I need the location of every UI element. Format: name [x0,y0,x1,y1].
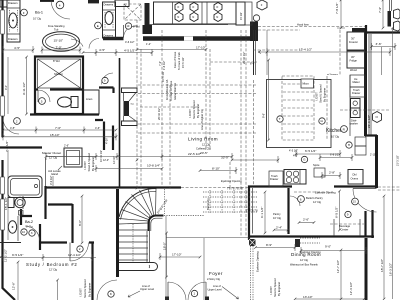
window left wall tub [1,177,5,194]
svg-text:Line of Higher Clg: Line of Higher Clg [200,109,204,130]
coffered horizontal 1 [138,84,257,86]
svg-text:O: O [216,5,218,9]
ba2 south wall [0,242,21,244]
corner cabinet top left [0,0,7,7]
burner hex O1 [175,3,183,12]
foyer dashed double line [251,246,254,300]
svg-text:Island: Island [51,172,58,176]
kitchen south wall east [334,185,377,187]
island tag T [277,116,283,122]
circle tag 9 hall [102,77,108,83]
svg-text:Master Closet: Master Closet [42,151,61,155]
svg-text:21'-6 1/2": 21'-6 1/2" [367,115,371,128]
svg-text:I JOIST: I JOIST [315,92,319,101]
circle tag 2 study [77,246,83,252]
shower inner tile line [38,59,81,88]
dishwasher box 2 [351,108,361,118]
svg-text:7'-8 1/2": 7'-8 1/2" [335,3,339,14]
svg-text:N: N [216,15,218,19]
svg-text:4'-5": 4'-5" [10,126,15,130]
svg-text:8'-0": 8'-0" [78,220,82,226]
vanity Ba-1 left drawer lines [7,8,20,34]
dim vert left margin 1 [7,57,9,114]
svg-text:2'-6": 2'-6" [64,145,69,148]
stair left wall [116,189,119,277]
window left wall W2 [1,96,5,116]
master closet left wall thin [45,158,47,186]
ba2 sink oval [8,221,16,233]
foyer door leaf right [205,282,207,300]
trash drawer box [269,171,283,187]
counter range box [284,170,306,185]
range cabinet left base [143,25,153,34]
svg-text:9' Wd: 9' Wd [133,25,140,29]
svg-text:3: 3 [31,231,33,235]
dim row 33-9 [232,156,278,163]
svg-text:6'-1 1/2": 6'-1 1/2" [260,207,264,218]
fireplace firebox [124,101,130,116]
dim line 15-10 mid [3,133,116,140]
sink dot [12,20,14,22]
counter burner circles [286,171,291,176]
closet wall horizontal [0,146,42,148]
ba2 tub drain [34,184,37,187]
svg-text:Dbl: Dbl [353,173,357,177]
svg-text:9'-11 1/2": 9'-11 1/2" [22,82,26,95]
dining west jamb [295,239,300,247]
wc partition wall [35,88,83,90]
burner hex O2 [190,3,198,12]
svg-text:7'8 7'8 7'8: 7'8 7'8 7'8 [246,209,258,213]
svg-text:10'-8 1/4": 10'-8 1/4" [147,164,160,168]
dim 2-6 butler [299,222,314,224]
hall door leaf 10 [123,25,125,38]
svg-text:17'-10": 17'-10" [172,253,182,257]
coffered ceiling vertical 4 [210,49,230,188]
circle tag E vanity2 [95,22,102,29]
svg-text:washer: washer [350,122,358,126]
cabinet boxes right mid [355,137,366,146]
island front dashed [253,49,300,51]
svg-text:33'-9": 33'-9" [221,156,229,160]
stair right dashed edge [164,189,204,216]
hood pillar left [145,3,150,25]
island tag 11 [319,118,325,124]
svg-text:Center: Center [341,228,349,232]
svg-text:10' Clg: 10' Clg [331,135,340,139]
svg-text:I JOIST: I JOIST [79,288,83,297]
circle tag 6b pantry [345,211,351,217]
closet island inner [67,151,80,165]
svg-text:I JOIST: I JOIST [188,109,192,118]
svg-text:E: E [97,24,99,28]
dim vertical 9-11 [26,57,28,114]
svg-text:8'-10": 8'-10" [212,167,220,171]
svg-text:Linen: Linen [86,97,93,101]
svg-text:4'-0": 4'-0" [4,85,8,90]
coffered ceiling vertical 6 [245,30,247,236]
svg-text:4'-5": 4'-5" [14,46,20,50]
svg-text:12'-3 1/2": 12'-3 1/2" [349,282,353,295]
vanity Ba-1 right [103,2,116,38]
svg-text:8' Wd: 8' Wd [53,59,60,63]
coffered horizontal 4 [138,132,257,134]
svg-text:21'-3 1/2": 21'-3 1/2" [396,155,400,166]
svg-text:20'-10 1/2": 20'-10 1/2" [242,52,246,64]
foyer door leaf left [167,282,169,300]
svg-text:N: N [192,15,194,19]
svg-text:O: O [177,5,179,9]
vanity Ba-1 left [7,0,20,42]
dim 17-10 stairs [160,253,200,260]
svg-text:Micro: Micro [303,82,310,86]
svg-text:12' Clg: 12' Clg [49,156,58,160]
kitchen dashed line right [340,109,390,111]
svg-text:By Engineer: By Engineer [91,157,95,171]
coffered ceiling vertical 5 [240,30,242,236]
cooktop dividers [173,2,208,24]
svg-text:20'-5": 20'-5" [200,151,208,155]
bath hall door arc [89,39,99,49]
svg-text:Ba-1: Ba-1 [35,11,43,15]
hood above dashed [258,27,365,31]
foyer column [249,239,256,246]
dim vertical 15-6 [372,28,396,299]
svg-text:12'-4 1/2": 12'-4 1/2" [68,253,81,257]
stair fan treads [119,189,156,225]
leader line island [58,166,62,170]
stair outer rail arc2 [121,191,157,219]
eyebrow opening dashed top [378,187,400,190]
pantry door arc [290,196,300,206]
tub inner ellipse [46,34,77,49]
svg-text:Hood Item: Hood Item [297,23,309,27]
svg-text:4'-5 1/2": 4'-5 1/2" [289,150,298,153]
svg-text:4'-6 1/2": 4'-6 1/2" [125,40,135,44]
svg-text:Pantry: Pantry [273,212,281,216]
svg-text:Free-Standing: Free-Standing [48,24,65,28]
svg-text:30": 30" [351,37,355,41]
circle tag 15 dining door [352,198,359,205]
beverage niche west wall [364,211,366,236]
dim 9-5 study [0,254,96,261]
attic access dashed box [124,4,141,20]
svg-text:10' Clg: 10' Clg [33,17,42,21]
burner hex N3 [214,12,222,21]
island dim line [268,60,270,140]
hall dashed pair [169,85,171,188]
butler east wall lower [371,210,373,238]
svg-text:9'-5 1/2": 9'-5 1/2" [12,253,23,257]
dining NE corner jog [364,235,374,237]
svg-text:Freezer: Freezer [349,40,358,44]
ba2 toilet bowl inner [17,200,23,206]
stairs second bullnose inner [148,265,151,268]
svg-text:7'-9": 7'-9" [378,7,382,13]
burner hex N2 [190,12,198,21]
ba2 sink dot [12,226,14,228]
dim 2-8 spice [322,172,340,179]
stair outer rail arc [119,188,157,217]
wc door arc [38,90,50,102]
svg-text:O: O [192,5,194,9]
counter range divider [299,170,301,185]
wall niche white [184,37,193,41]
svg-text:F: F [23,11,25,15]
svg-text:9'-6": 9'-6" [262,113,266,118]
fireplace top flange [122,88,138,93]
svg-text:Sized & Spaced: Sized & Spaced [87,152,91,171]
svg-text:10'-5 1/2": 10'-5 1/2" [161,71,165,82]
circle tag R kitchen [341,126,348,133]
svg-text:30": 30" [351,55,355,59]
ba2 vanity counter [17,216,19,241]
svg-text:3'-9 1/2": 3'-9 1/2" [49,175,53,185]
svg-text:18'-0": 18'-0" [163,242,167,250]
dbl ovens box [348,170,363,185]
door arc hall left [3,118,19,134]
island corner jog top [352,28,365,33]
dim vertical 12-6 study [18,262,58,300]
svg-text:Coffered Clg: Coffered Clg [196,147,211,151]
svg-text:12' Clg: 12' Clg [300,258,309,262]
dining NE door leaf [353,188,377,190]
svg-text:13'-10": 13'-10" [303,295,313,299]
svg-text:15 1/2": 15 1/2" [239,12,243,20]
svg-text:9: 9 [347,213,349,217]
svg-text:17'-10": 17'-10" [196,46,206,50]
sink oval Ba-1 left [9,13,17,28]
wic door arc [71,39,83,47]
kitchen dashed vertical [339,30,341,75]
kitchen east wall [364,33,367,136]
svg-text:1: 1 [193,292,195,296]
dim vertical 6-5 butler [339,191,341,230]
hall south wall [99,88,114,94]
kitchen east wall inner line [369,34,371,135]
stair up dotted line [132,224,134,262]
svg-text:12'-7 1/2": 12'-7 1/2" [336,260,340,273]
svg-text:7'8 7'8 7'8 7'8: 7'8 7'8 7'8 7'8 [227,187,243,191]
svg-text:Line of: Line of [213,284,221,288]
circle H spout [253,15,259,21]
window left wall W1 [1,10,5,34]
ba2 toilet bowl [15,197,25,207]
svg-text:15'-1 1/2": 15'-1 1/2" [4,197,8,210]
master closet top wall [46,186,182,188]
coffered ceiling vertical 3 [141,30,206,188]
foyer double door arc right [188,282,206,300]
dim 17-10 lr [137,49,206,51]
island micro box [301,79,314,88]
dim vertical 6-1 pantry [264,192,266,233]
svg-text:2'-4": 2'-4" [276,226,282,230]
tick marks row157 [46,153,117,160]
dim vert left margin 2 [7,150,9,240]
arrow upper level stairs [128,291,140,297]
circle tag 3 ba2 [29,230,35,236]
ba2 door arc [25,226,40,241]
eyebrow opening dashes kitchen [294,191,333,193]
svg-text:Maker: Maker [353,80,360,84]
svg-text:15'-4 1/2": 15'-4 1/2" [299,48,312,52]
dim line 7-0 tub [42,47,80,54]
dim line 15-4.5 top right [267,48,390,56]
svg-text:Barrel Clg: Barrel Clg [206,198,210,210]
burner hex N1 [175,12,183,21]
burner hex O3 [214,3,222,12]
spice cabinet [314,168,325,177]
shower X diagonal 1 [38,59,81,88]
closet east wall [71,204,73,243]
dining right wall [365,238,368,300]
kitchen island countertop [267,80,332,148]
porch hexagon 1 [394,9,400,19]
svg-text:Wood: Wood [350,68,357,72]
cooktop counter front line [147,24,228,26]
stairs straight treads [119,230,148,260]
dim vertical 18-7 right [383,196,385,299]
circle tag 8 study door [108,291,114,297]
svg-text:2-Story Clg: 2-Story Clg [207,277,221,281]
svg-text:Drawers: Drawers [104,3,114,7]
ba2 tub inner [11,179,40,196]
dim 2-4 pantry [274,229,288,231]
coffered horizontal 3 [138,123,257,125]
svg-text:15'-5 1/2": 15'-5 1/2" [181,57,185,68]
fridge box [347,51,365,68]
dishwasher box 1 [351,99,361,109]
free standing tub ellipse [43,32,80,52]
svg-text:11'-2 1/2": 11'-2 1/2" [4,249,8,262]
wc door leaf [37,90,39,102]
hall door arc 10 [124,26,138,38]
hall north wall left [103,37,124,41]
svg-text:Fridge: Fridge [350,59,358,63]
svg-text:I JOIST: I JOIST [269,286,273,295]
svg-text:9' Clg: 9' Clg [26,225,33,229]
svg-text:8'-6": 8'-6" [250,62,255,66]
svg-text:9: 9 [104,79,106,83]
dim line 4-5.5 hall [83,49,152,56]
kitchen south wall west [248,185,292,187]
coffered ceiling vertical 1 [136,20,138,188]
svg-text:Drawers: Drawers [8,37,18,41]
island dashed vertical right [326,76,328,140]
foyer door jambs [165,297,169,300]
svg-text:Upper Level: Upper Level [140,287,154,291]
flex ceiling dotted rows [203,192,258,212]
svg-text:2'-10": 2'-10" [370,154,376,157]
svg-text:Shower: Shower [54,72,63,76]
svg-text:Drawers: Drawers [8,1,18,5]
dim 13-10 bottom [295,298,364,300]
ba2 tub [8,176,42,198]
beverage niche sides [334,219,360,236]
wire left outer wall upper [1,0,3,137]
dim line 4-5 top left [3,46,33,53]
study lower-left door arc [97,280,117,300]
study door arc [70,243,89,262]
svg-text:Gas: Gas [131,104,135,106]
circle tag 10 ba2 [21,229,27,235]
dim row 10-8 [96,165,162,172]
dishwasher knob 1 [353,101,357,105]
svg-text:Living Room: Living Room [188,137,218,142]
svg-text:Drawers: Drawers [104,34,114,38]
hood pillar right [236,2,245,25]
svg-text:Eyebrow Opening: Eyebrow Opening [315,191,336,195]
svg-text:Butler's Pantry: Butler's Pantry [306,196,323,200]
svg-text:H: H [348,143,350,147]
beverage niche dashes [330,223,364,225]
pantry inner wall [252,188,254,234]
study door leaf [69,243,71,262]
svg-text:4'-5 1/2": 4'-5 1/2" [124,49,135,53]
ba2 alcove walls [21,209,40,250]
coffered horizontal 2 [138,93,257,95]
east wall upper thin [390,0,392,11]
fresh drawer box [350,87,365,97]
svg-text:By Engineer: By Engineer [323,88,327,102]
circle tag 2 hall door [14,118,21,125]
svg-text:Ovens: Ovens [351,177,359,181]
svg-text:5: 5 [41,99,43,103]
DASHED [137,20,400,300]
wire left outer wall lower [3,160,16,300]
svg-text:7'-0": 7'-0" [55,126,61,130]
freezer box [347,32,365,50]
hall north wall main [143,36,251,41]
closet south wall [48,203,73,205]
svg-text:Spice: Spice [313,163,320,167]
svg-text:I JOIST: I JOIST [83,161,87,170]
living room open dashed [181,187,248,189]
kitchen cabinet front line [349,75,351,136]
cooktop outline [154,2,237,24]
svg-text:26'-10 1/2": 26'-10 1/2" [157,108,161,120]
dim vertical 7-9 right [382,0,384,28]
dim arrows island mid [258,51,267,54]
study top wall [40,241,94,243]
dining NE door arc [353,189,377,213]
svg-text:2'-6": 2'-6" [303,218,309,222]
coffered ceiling vertical 2 [161,30,163,186]
dim line master closet top [46,156,96,158]
svg-text:Study / Bedroom #2: Study / Bedroom #2 [26,262,77,267]
hall door arc [102,73,114,85]
circle tag 6 butler [298,196,305,203]
door arc Ba-1 top [51,0,70,19]
svg-text:8'-9": 8'-9" [266,243,272,247]
svg-text:Sized & Spaced: Sized & Spaced [319,84,323,103]
svg-text:6'-5 1/2": 6'-5 1/2" [335,207,339,218]
wall NE corner vertical [365,25,367,33]
svg-text:4: 4 [59,3,61,7]
svg-text:7'-3 1/2": 7'-3 1/2" [5,141,9,152]
hall spine wall [119,58,121,188]
svg-text:7'-0": 7'-0" [56,46,62,50]
pantry cabinet dashed [300,238,320,243]
svg-text:9'-0": 9'-0" [325,245,331,249]
svg-text:Sized & Spaced: Sized & Spaced [192,100,196,119]
master closet left wall [44,186,46,219]
island dashed vertical [253,80,255,186]
svg-text:10' Clg: 10' Clg [273,216,282,220]
svg-text:12'-10": 12'-10" [112,156,116,164]
svg-text:6: 6 [300,197,302,201]
master closet island box [64,148,82,167]
